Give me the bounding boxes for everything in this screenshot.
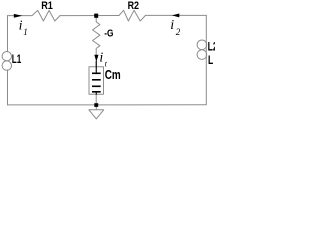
wire top-right segment xyxy=(146,14,207,16)
node top junction xyxy=(94,14,98,18)
capacitor Cm plate 1 xyxy=(92,73,101,75)
svg-text:L2: L2 xyxy=(208,42,215,54)
inductor L1 loop 2 xyxy=(2,61,11,70)
wire Cm bottom stem xyxy=(95,94,97,105)
wire bottom xyxy=(8,104,206,106)
current arrow i2 xyxy=(172,14,180,18)
svg-text:R2: R2 xyxy=(128,0,139,12)
wire Cm plate bottom stem xyxy=(96,93,97,95)
svg-text:-G: -G xyxy=(104,28,113,39)
inductor L1 loop 1 xyxy=(2,52,11,61)
wire left side upper xyxy=(7,16,9,52)
current arrow it xyxy=(94,55,98,62)
svg-text:R1: R1 xyxy=(41,0,53,12)
svg-text:L1: L1 xyxy=(12,54,22,66)
current arrow i1 xyxy=(14,14,22,18)
inductor L2 loop 1 xyxy=(197,40,207,50)
svg-text:i: i xyxy=(19,18,23,33)
svg-text:i: i xyxy=(99,50,103,65)
capacitor Cm plate 3 xyxy=(92,86,101,88)
capacitor Cm plate 2 xyxy=(92,79,101,81)
ground xyxy=(89,110,104,119)
wire left side lower xyxy=(7,70,9,105)
svg-text:Cm: Cm xyxy=(105,68,121,82)
wire ground stem xyxy=(95,105,97,110)
svg-text:2: 2 xyxy=(176,27,181,37)
svg-text:i: i xyxy=(170,18,174,33)
resistor -G (negative conductance) xyxy=(93,18,100,67)
wire Cm plate top stem xyxy=(96,61,97,73)
capacitor Cm plate 4 xyxy=(92,91,101,93)
svg-text:L: L xyxy=(208,55,213,67)
inductor L2 loop 2 xyxy=(197,50,207,60)
capacitor Cm box xyxy=(89,67,104,94)
svg-text:1: 1 xyxy=(23,27,28,37)
resistor R1 xyxy=(32,10,60,21)
wire top-left segment xyxy=(8,15,33,17)
wire right side xyxy=(205,15,207,104)
wire top-middle segment xyxy=(60,15,119,17)
node bottom junction xyxy=(94,103,98,107)
resistor R2 xyxy=(119,10,146,21)
